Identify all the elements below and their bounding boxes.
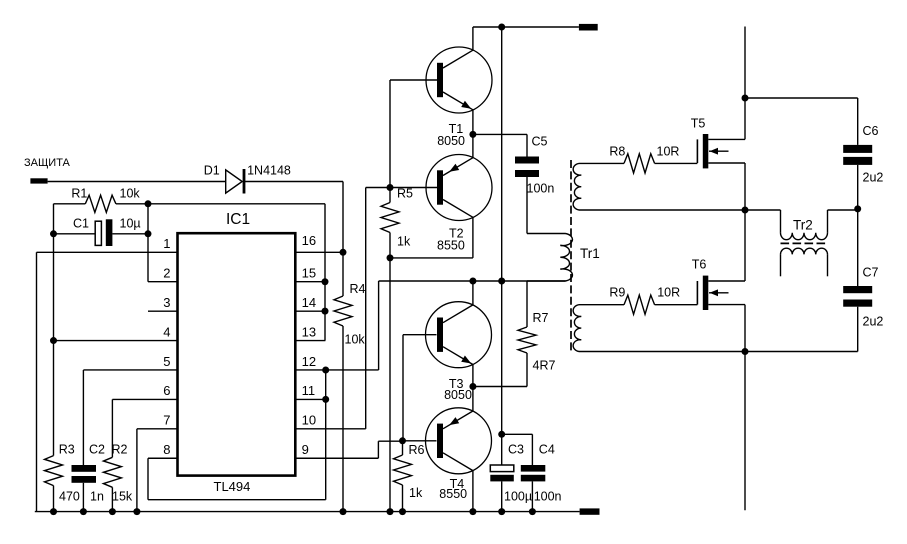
svg-text:1k: 1k [397,235,411,249]
wire [579,304,624,306]
wire pin5 [83,370,177,465]
wire pin9 [295,441,402,458]
node junction [854,205,861,212]
svg-text:4R7: 4R7 [533,359,556,373]
wire [579,351,745,353]
svg-text:470: 470 [59,490,80,504]
node ЗАЩИТА terminal [24,157,71,184]
wire pin4 [54,340,178,342]
wire pin1 [37,252,178,511]
wire pin13 [295,204,325,341]
transformer Tr1 secondary winding upper [573,163,581,210]
wire [342,182,344,253]
transformer Tr2 core [781,218,828,244]
wire [828,210,858,233]
transformer Tr2 primary winding [781,233,828,240]
capacitor C7 [745,209,883,352]
svg-text:12: 12 [302,354,316,369]
wire [744,163,746,210]
svg-text:C3: C3 [508,442,524,456]
wire [744,305,746,352]
svg-text:D1: D1 [204,163,220,177]
wire [527,280,566,282]
wire [147,204,149,282]
resistor R2 [103,442,133,511]
wire top rail [473,26,579,28]
svg-text:14: 14 [302,295,316,310]
wire pin8 [148,370,326,500]
node junction [469,383,476,390]
ground terminal bottom [580,508,600,514]
svg-text:2: 2 [163,266,170,281]
wire [148,203,325,205]
wire pin3 stub [148,310,178,312]
svg-text:1n: 1n [90,490,104,504]
wire [473,386,527,388]
svg-text:2u2: 2u2 [863,171,884,185]
transformer Tr1 secondary winding lower [573,305,581,352]
svg-text:1: 1 [163,236,170,251]
node junction [469,278,505,285]
capacitor C3 [490,442,532,511]
svg-text:Tr2: Tr2 [793,218,813,233]
svg-text:3: 3 [163,295,170,310]
resistor R4 [334,252,366,511]
svg-text:C4: C4 [539,442,555,456]
svg-text:8050: 8050 [444,388,472,402]
wire [780,254,782,276]
transistor T3 [426,302,492,402]
svg-text:1k: 1k [409,486,423,500]
wire [244,181,343,183]
svg-text:100µ: 100µ [504,490,532,504]
node junction [399,437,406,444]
svg-text:7: 7 [163,413,170,428]
svg-text:10k: 10k [120,187,141,201]
wire [472,281,474,305]
svg-text:10k: 10k [345,333,366,347]
svg-text:11: 11 [302,383,316,398]
wire pin7 [137,429,178,512]
svg-text:1N4148: 1N4148 [247,163,291,177]
svg-text:9: 9 [302,442,309,457]
wire pin12 [295,281,378,370]
svg-text:C7: C7 [863,266,879,280]
transformer Tr1 core [571,160,600,352]
wire [472,387,474,412]
wire pin2 [148,281,178,283]
svg-text:100n: 100n [527,182,555,196]
svg-text:R3: R3 [59,442,75,456]
wire [53,204,55,456]
capacitor C2 [72,442,106,511]
wire [655,162,698,164]
svg-text:Tr1: Tr1 [580,246,600,261]
svg-text:R4: R4 [350,282,366,296]
capacitor C1 [54,217,149,247]
svg-text:6: 6 [163,383,170,398]
wire [502,434,533,465]
node junction [742,95,749,102]
svg-text:10µ: 10µ [120,217,141,231]
wire [827,254,829,276]
node junction [742,348,749,355]
resistor R8 [609,145,679,173]
resistor R3 [45,442,80,511]
svg-text:16: 16 [302,233,316,248]
transistor T5 [691,116,745,168]
capacitor C6 [843,98,883,209]
svg-text:15: 15 [302,266,316,281]
wire [472,110,474,135]
node junction [50,508,536,515]
resistor R5 [381,187,413,258]
transistor T1 [426,47,492,148]
resistor R6 [394,441,425,512]
svg-text:C2: C2 [89,442,105,456]
diode D1 [204,163,291,193]
svg-text:100n: 100n [534,490,562,504]
wire [527,233,566,235]
transistor T4 [426,408,492,501]
wire node A [379,280,566,282]
svg-text:R5: R5 [397,187,413,201]
svg-text:10R: 10R [657,286,680,300]
svg-text:13: 13 [302,324,316,339]
wire [403,440,437,442]
wire [48,181,226,183]
svg-text:R2: R2 [112,442,128,456]
node junction [498,431,505,438]
svg-text:2u2: 2u2 [863,315,884,329]
wire [472,365,474,387]
wire pin6 [112,399,177,457]
svg-text:T6: T6 [692,258,707,272]
svg-text:4: 4 [163,324,170,339]
wire [744,27,746,99]
svg-text:R1: R1 [71,187,87,201]
transformer Tr1 primary winding [560,234,572,282]
svg-text:10: 10 [302,413,316,428]
node junction [387,184,394,261]
wire [655,304,698,306]
svg-text:8050: 8050 [437,134,465,148]
capacitor C5 [515,134,554,233]
wire [390,80,437,188]
svg-text:R7: R7 [533,311,549,325]
wire [403,335,437,441]
svg-text:15k: 15k [112,490,133,504]
capacitor C4 [521,442,562,511]
wire [744,98,746,139]
svg-text:R9: R9 [609,286,625,300]
svg-text:8550: 8550 [437,239,465,253]
svg-text:C6: C6 [863,124,879,138]
resistor R9 [609,286,680,315]
node junction [469,131,476,138]
svg-text:C1: C1 [73,217,89,231]
wire [745,210,781,233]
svg-text:10R: 10R [657,145,680,159]
wire pin15 [295,281,325,283]
node junction [50,200,152,344]
svg-text:ЗАЩИТА: ЗАЩИТА [24,157,71,169]
wire [744,210,746,281]
wire bottom rail [35,511,580,513]
transistor T2 [426,155,492,253]
wire [366,187,437,189]
wire [745,97,858,99]
wire [472,471,474,512]
node junction [742,207,749,214]
wire [390,217,473,258]
svg-text:C5: C5 [532,134,548,148]
power terminal top [579,24,598,31]
resistor R7 [518,281,555,387]
svg-text:8: 8 [163,442,170,457]
wire pin10 [295,188,365,429]
wire [472,134,474,157]
op-amp U1 IC1 TL494 body [178,211,296,494]
node junction [322,249,347,403]
wire [473,133,527,135]
svg-text:TL494: TL494 [214,479,251,494]
resistor R1 [54,187,149,213]
wire [472,27,474,50]
svg-text:R8: R8 [609,145,625,159]
wire [579,209,745,211]
svg-text:IC1: IC1 [226,211,250,228]
wire [744,352,746,511]
svg-text:8550: 8550 [439,487,467,501]
transformer Tr2 secondary winding [781,248,828,254]
wire [389,258,391,512]
wire pin16 [295,251,343,253]
svg-text:T5: T5 [691,116,706,130]
svg-text:R6: R6 [409,443,425,457]
wire pin14 [295,310,325,312]
wire [579,162,624,164]
wire [501,27,503,465]
svg-text:5: 5 [163,354,170,369]
wire pin11 [295,398,325,400]
transistor T6 [692,258,745,310]
node junction [498,24,505,31]
label pin numbers [163,233,316,457]
